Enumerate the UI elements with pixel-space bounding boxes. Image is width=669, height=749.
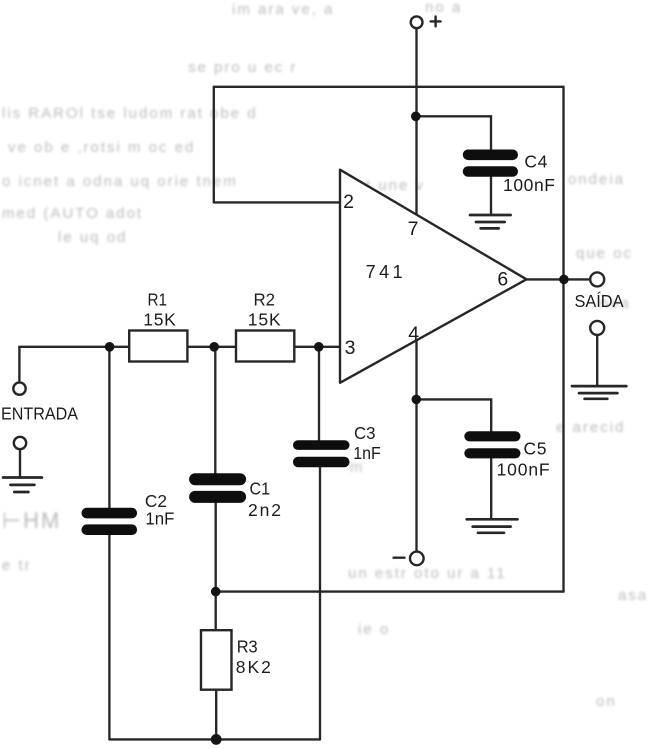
svg-text:asa: asa xyxy=(618,587,648,604)
terminal ENTRADA ground post xyxy=(14,437,26,449)
terminal V- xyxy=(410,552,424,566)
svg-text:C5: C5 xyxy=(524,439,547,459)
label + xyxy=(431,16,441,26)
junction node R2/pin3/C3 xyxy=(314,342,324,352)
svg-text:R3: R3 xyxy=(237,636,258,656)
wire input horizontal segment 1 xyxy=(19,347,129,383)
svg-text:R2: R2 xyxy=(254,289,276,309)
wire feedback box right vertical xyxy=(562,87,564,592)
ground below ENTRADA xyxy=(3,478,42,493)
junction node R1/R2/C1 xyxy=(209,342,219,352)
svg-text:15K: 15K xyxy=(248,310,281,330)
resistor R3 body xyxy=(201,630,232,690)
svg-text:2n2: 2n2 xyxy=(248,500,281,520)
ground below SAIDA xyxy=(572,386,626,399)
wire C2 bottom lead xyxy=(108,534,110,740)
wire output pin 6 to terminal xyxy=(527,278,591,280)
junction node V+/C4 xyxy=(411,112,421,122)
svg-text:no a: no a xyxy=(425,0,462,16)
junction node pin4/C5 xyxy=(412,395,422,405)
terminal ENTRADA input xyxy=(13,382,25,394)
capacitor C2 plates xyxy=(82,508,138,535)
junction node output/feedback xyxy=(559,275,569,285)
op-amp U1 741 triangle xyxy=(340,170,527,383)
svg-text:8K2: 8K2 xyxy=(236,657,271,677)
svg-text:un estr oto ur a 11: un estr oto ur a 11 xyxy=(348,565,507,582)
svg-text:se pro u ec r: se pro u ec r xyxy=(188,59,297,76)
capacitor C3 plates xyxy=(293,440,350,467)
wire feedback bottom horizontal xyxy=(216,590,564,592)
svg-text:100nF: 100nF xyxy=(497,460,550,480)
svg-text:lis RAROl tse ludom rat obe: lis RAROl tse ludom rat obe d xyxy=(2,105,258,122)
svg-text:C3: C3 xyxy=(354,423,376,443)
svg-text:on: on xyxy=(596,693,617,710)
svg-text:4: 4 xyxy=(408,323,419,345)
svg-text:R1: R1 xyxy=(148,289,168,309)
wire to pin 2 xyxy=(214,201,340,203)
capacitor C5 plates xyxy=(464,431,520,458)
wire C5 branch horizontal xyxy=(417,399,492,432)
svg-text:3: 3 xyxy=(345,337,356,359)
wire C4 bottom lead xyxy=(490,176,492,213)
svg-text:15K: 15K xyxy=(143,310,176,330)
svg-text:que oc: que oc xyxy=(576,245,633,262)
terminal SAIDA ground post xyxy=(590,321,604,335)
wire ENTRADA ground lead xyxy=(19,449,21,477)
svg-text:ENTRADA: ENTRADA xyxy=(1,404,78,424)
wire C2 top lead xyxy=(108,347,110,509)
wire C5 bottom lead xyxy=(490,458,492,519)
svg-text:C4: C4 xyxy=(524,152,547,172)
svg-text:e tr: e tr xyxy=(2,557,32,574)
svg-text:med (AUTO adot: med (AUTO adot xyxy=(2,205,143,222)
capacitor C1 plates xyxy=(189,473,246,503)
svg-text:1nF: 1nF xyxy=(353,443,381,463)
wire pin 4 to V- terminal xyxy=(415,340,417,552)
terminal V+ xyxy=(411,16,423,28)
terminal SAIDA output xyxy=(590,272,604,286)
wire C4 branch horizontal xyxy=(417,116,492,150)
wire bottom horizontal xyxy=(109,738,320,740)
svg-text:im ara ve, a: im ara ve, a xyxy=(232,1,334,18)
wire R2 to pin 3 xyxy=(294,346,340,348)
resistor R1 body xyxy=(129,331,187,362)
svg-text:SAÍDA: SAÍDA xyxy=(575,291,624,311)
svg-text:741: 741 xyxy=(366,262,403,282)
svg-text:100nF: 100nF xyxy=(503,175,555,195)
ground below C5 xyxy=(467,519,518,533)
label - xyxy=(394,557,405,559)
svg-text:o icnet a odna uq orie tne: o icnet a odna uq orie tnem xyxy=(2,173,238,190)
junction node C1/feedback wire xyxy=(211,587,221,597)
wire feedback box top xyxy=(214,86,564,88)
resistor R2 body xyxy=(236,331,294,362)
junction node input/C2 xyxy=(105,342,115,352)
wire between R1 and R2 xyxy=(187,346,236,348)
wire C1 top lead xyxy=(214,347,216,475)
junction node R3/bottom wire xyxy=(211,734,222,745)
svg-text:ondeia: ondeia xyxy=(568,171,625,188)
svg-text:1nF: 1nF xyxy=(145,509,174,529)
capacitor C4 plates xyxy=(463,150,518,177)
svg-text:⊢HM: ⊢HM xyxy=(2,508,61,533)
wire C3 bottom lead xyxy=(319,467,321,740)
wire SAIDA ground lead xyxy=(596,335,598,386)
svg-text:le uq od: le uq od xyxy=(58,229,127,246)
wire R3 bottom lead xyxy=(215,690,217,740)
svg-text:C1: C1 xyxy=(250,478,271,498)
svg-text:ie o: ie o xyxy=(358,621,390,638)
svg-text:ve ob e ,rotsi m oc ed: ve ob e ,rotsi m oc ed xyxy=(8,139,195,156)
wire C3 top lead xyxy=(318,347,320,442)
svg-text:e arecid: e arecid xyxy=(556,419,625,436)
svg-text:6: 6 xyxy=(497,269,508,291)
svg-text:2: 2 xyxy=(343,191,354,213)
wire V+ supply vertical (to pin 7) xyxy=(415,29,417,215)
wire C1 bottom lead to R3 xyxy=(215,502,217,630)
ground below C4 xyxy=(470,215,511,228)
svg-text:7: 7 xyxy=(408,218,419,240)
wire feedback box left vertical xyxy=(213,87,215,203)
